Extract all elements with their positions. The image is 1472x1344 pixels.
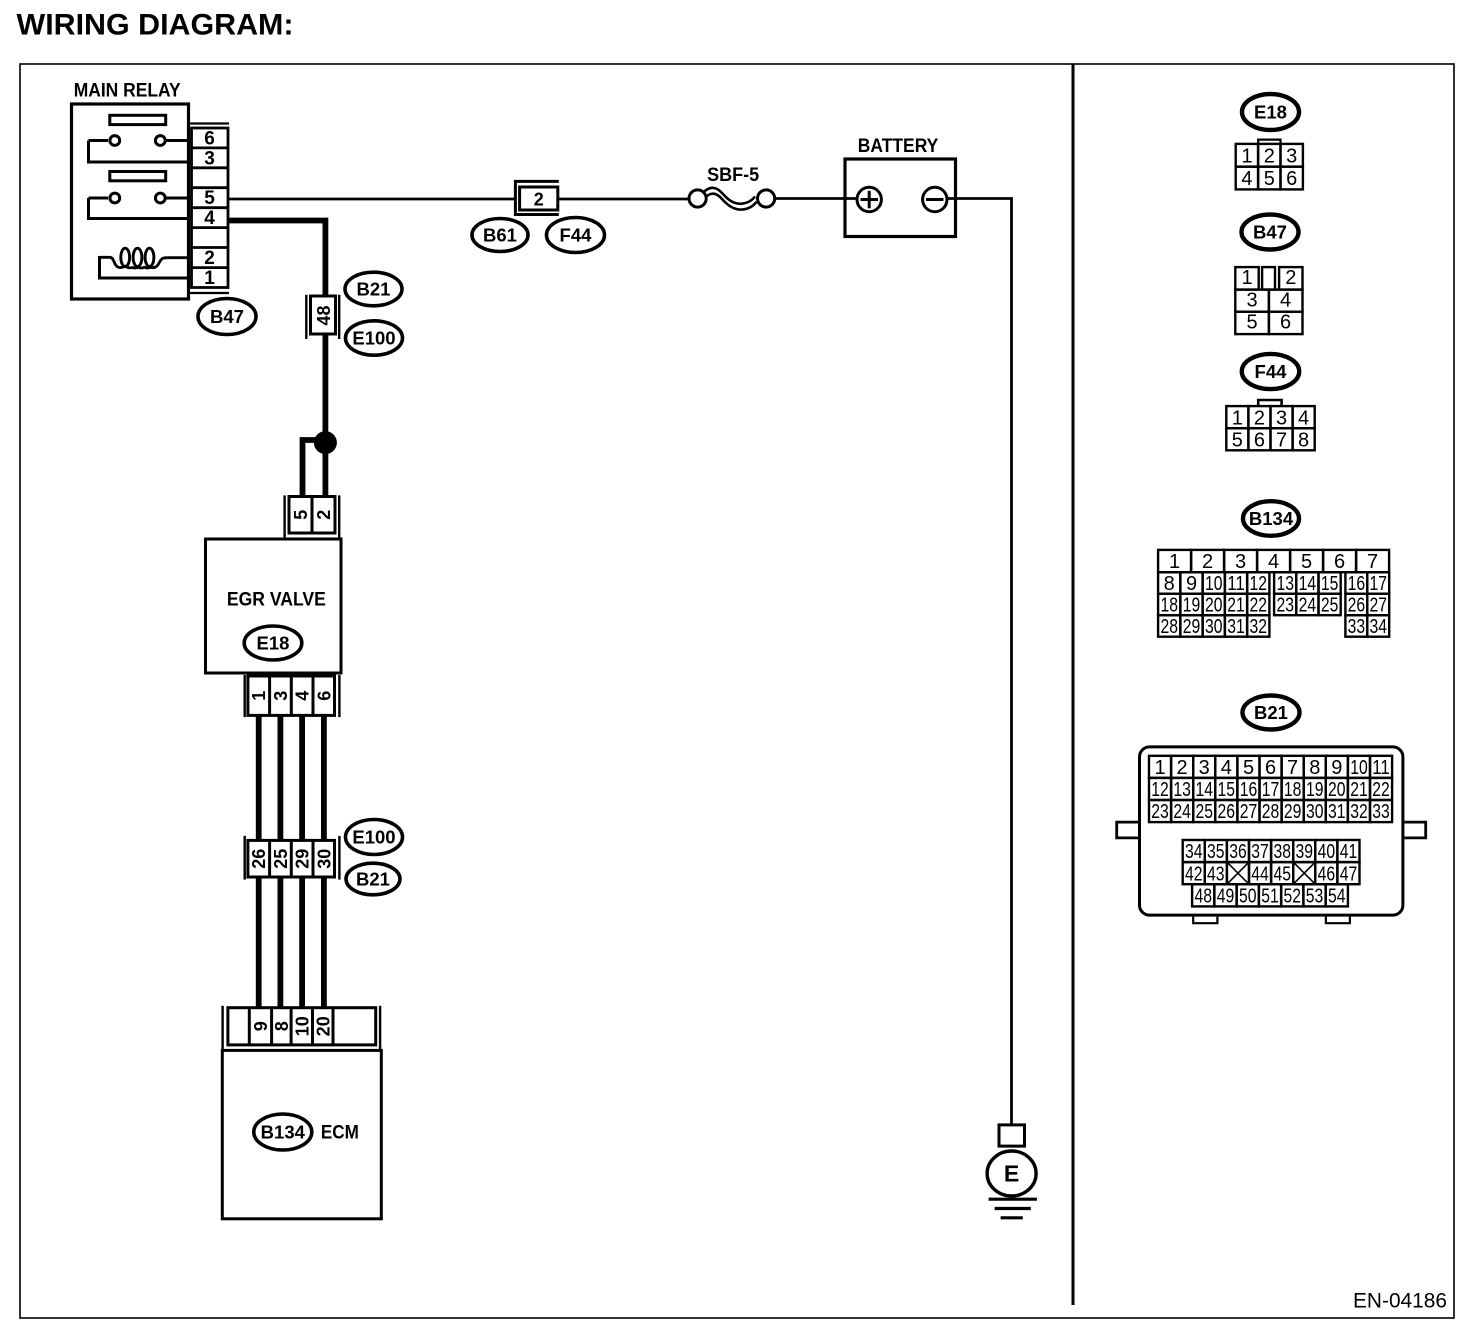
fuse SBF-5	[689, 165, 775, 210]
svg-text:42: 42	[1185, 863, 1203, 885]
svg-text:7: 7	[1287, 757, 1298, 779]
svg-text:3: 3	[1286, 146, 1297, 168]
svg-text:3: 3	[271, 691, 291, 701]
svg-text:2: 2	[534, 190, 544, 210]
svg-text:40: 40	[1318, 841, 1336, 863]
wire: B21 pin 25 to ECM pin 8	[277, 877, 283, 1009]
svg-text:E18: E18	[257, 632, 290, 653]
connector label B21	[345, 272, 402, 306]
svg-text:13: 13	[1276, 573, 1294, 595]
svg-text:31: 31	[1328, 801, 1346, 823]
svg-text:5: 5	[1232, 430, 1243, 452]
svg-text:20: 20	[1328, 779, 1346, 801]
svg-text:10: 10	[1205, 573, 1223, 595]
svg-text:BATTERY: BATTERY	[858, 136, 939, 157]
svg-text:21: 21	[1227, 595, 1245, 617]
wire: junction to EGR pin 2	[322, 443, 328, 497]
svg-text:F44: F44	[560, 224, 593, 245]
svg-text:17: 17	[1370, 573, 1388, 595]
svg-text:6: 6	[1280, 312, 1291, 334]
svg-text:9: 9	[251, 1021, 271, 1031]
svg-text:27: 27	[1370, 595, 1388, 617]
svg-text:3: 3	[1235, 551, 1246, 573]
svg-text:B21: B21	[357, 278, 391, 299]
svg-text:1: 1	[1241, 146, 1252, 168]
svg-text:11: 11	[1227, 573, 1245, 595]
svg-text:27: 27	[1240, 801, 1258, 823]
svg-text:33: 33	[1372, 801, 1390, 823]
connector B21 housing	[1117, 747, 1426, 923]
svg-text:4: 4	[1298, 407, 1309, 429]
connector label E100	[346, 321, 403, 355]
svg-text:4: 4	[1280, 289, 1291, 311]
svg-text:25: 25	[1195, 801, 1213, 823]
svg-text:26: 26	[1218, 801, 1236, 823]
svg-text:2: 2	[1264, 146, 1275, 168]
relay switch 1 (pins 6-3)	[89, 136, 189, 162]
svg-text:1: 1	[1232, 407, 1243, 429]
svg-text:9: 9	[1186, 573, 1197, 595]
svg-text:41: 41	[1340, 841, 1358, 863]
connector label F44	[547, 218, 605, 253]
svg-text:EGR VALVE: EGR VALVE	[227, 590, 326, 611]
svg-text:47: 47	[1340, 863, 1358, 885]
wire: E18 pin 3 to E100 pin 25	[277, 715, 283, 841]
svg-text:26: 26	[249, 849, 269, 869]
connector F44 pin layout label	[1242, 354, 1299, 389]
svg-text:6: 6	[1334, 551, 1345, 573]
svg-text:51: 51	[1261, 886, 1279, 908]
svg-text:4: 4	[1268, 551, 1279, 573]
svg-text:37: 37	[1251, 841, 1269, 863]
svg-text:54: 54	[1328, 886, 1346, 908]
svg-text:24: 24	[1173, 801, 1191, 823]
svg-text:E100: E100	[352, 826, 395, 847]
svg-text:6: 6	[1286, 168, 1297, 190]
svg-text:11: 11	[1372, 757, 1390, 779]
connector E18 bottom strip (pins 1,3,4,6)	[245, 675, 340, 717]
svg-text:B134: B134	[261, 1121, 306, 1142]
wire: B21 pin 30 to ECM pin 20	[321, 877, 327, 1009]
svg-text:5: 5	[291, 510, 311, 520]
svg-text:10: 10	[1350, 757, 1368, 779]
svg-text:20: 20	[313, 1016, 333, 1036]
connector B21 pin layout label	[1243, 696, 1300, 730]
connector E100/B21 strip (pins 26,25,29,30)	[245, 836, 340, 880]
svg-text:3: 3	[1246, 289, 1257, 311]
connector B47 pin strip	[189, 124, 230, 294]
svg-text:52: 52	[1284, 886, 1302, 908]
svg-text:B61: B61	[483, 224, 517, 245]
wire: connector 48 down to junction	[322, 334, 328, 443]
svg-text:22: 22	[1250, 595, 1268, 617]
connector B21 pin grid bottom	[1183, 840, 1360, 908]
svg-text:8: 8	[1309, 757, 1320, 779]
ground connector box	[999, 1125, 1025, 1146]
svg-text:23: 23	[1151, 801, 1169, 823]
svg-text:8: 8	[272, 1021, 292, 1031]
wire: fuse to battery +	[775, 197, 857, 200]
svg-text:17: 17	[1262, 779, 1280, 801]
connector B134 pin layout label	[1243, 501, 1299, 536]
svg-text:4: 4	[1221, 757, 1232, 779]
junction node	[314, 431, 337, 454]
svg-text:3: 3	[1276, 407, 1287, 429]
relay contact bar 1	[110, 115, 166, 124]
relay switch 2 (pins 5-4)	[89, 193, 189, 218]
connector label B47	[198, 299, 256, 335]
svg-text:7: 7	[1276, 430, 1287, 452]
connector B47 pin grid	[1235, 267, 1302, 334]
main relay box	[72, 81, 189, 299]
svg-text:3: 3	[204, 148, 215, 169]
svg-text:19: 19	[1183, 595, 1201, 617]
svg-text:F44: F44	[1255, 361, 1288, 382]
svg-text:B47: B47	[1253, 221, 1287, 242]
svg-text:25: 25	[1321, 595, 1339, 617]
svg-text:22: 22	[1372, 779, 1390, 801]
svg-text:43: 43	[1207, 863, 1225, 885]
battery + terminal	[857, 187, 881, 211]
blocked pin X cells	[1227, 862, 1315, 884]
svg-text:5: 5	[204, 188, 215, 209]
ECM box	[222, 1050, 381, 1218]
connector label B134	[254, 1114, 312, 1150]
svg-text:49: 49	[1217, 886, 1235, 908]
svg-text:15: 15	[1218, 779, 1236, 801]
battery - terminal	[923, 187, 947, 211]
svg-text:6: 6	[1254, 430, 1265, 452]
svg-text:29: 29	[1183, 616, 1201, 638]
svg-text:18: 18	[1284, 779, 1302, 801]
svg-text:1: 1	[1241, 267, 1252, 289]
svg-text:48: 48	[314, 305, 334, 325]
svg-text:16: 16	[1348, 573, 1366, 595]
svg-text:30: 30	[1205, 616, 1223, 638]
relay contact bar 2	[110, 172, 166, 181]
svg-text:5: 5	[1246, 312, 1257, 334]
svg-text:32: 32	[1250, 616, 1268, 638]
svg-text:21: 21	[1350, 779, 1368, 801]
connector label B21	[346, 863, 400, 895]
svg-text:26: 26	[1348, 595, 1366, 617]
svg-text:6: 6	[1265, 757, 1276, 779]
connector E18 top strip (pins 5,2)	[285, 495, 340, 538]
svg-text:18: 18	[1160, 595, 1178, 617]
svg-text:B47: B47	[210, 306, 244, 327]
svg-text:30: 30	[314, 849, 334, 869]
svg-text:48: 48	[1194, 886, 1212, 908]
connector B134 pin grid	[1158, 550, 1389, 638]
svg-text:33: 33	[1348, 616, 1366, 638]
svg-text:16: 16	[1240, 779, 1258, 801]
svg-text:14: 14	[1299, 573, 1317, 595]
connector label E18	[244, 626, 302, 660]
svg-text:46: 46	[1318, 863, 1336, 885]
svg-text:B134: B134	[1249, 508, 1294, 529]
svg-text:24: 24	[1299, 595, 1317, 617]
connector B47 pin layout label	[1242, 215, 1299, 250]
svg-text:35: 35	[1207, 841, 1225, 863]
svg-text:44: 44	[1251, 863, 1269, 885]
svg-text:7: 7	[1367, 551, 1378, 573]
connector E18 pin layout label	[1242, 94, 1299, 130]
svg-text:32: 32	[1350, 801, 1368, 823]
svg-text:12: 12	[1250, 573, 1268, 595]
svg-text:12: 12	[1151, 779, 1169, 801]
svg-text:23: 23	[1276, 595, 1294, 617]
svg-text:4: 4	[1241, 168, 1252, 190]
wire: junction branch to EGR pin 5	[303, 440, 326, 497]
svg-text:36: 36	[1229, 841, 1247, 863]
svg-text:9: 9	[1331, 757, 1342, 779]
wire: connector 2 to fuse SBF-5	[559, 198, 690, 201]
svg-text:53: 53	[1306, 886, 1324, 908]
wire: E18 pin 6 to E100 pin 30	[321, 715, 327, 841]
svg-text:B21: B21	[1254, 702, 1288, 723]
svg-text:8: 8	[1164, 573, 1175, 595]
svg-text:1: 1	[204, 268, 215, 289]
svg-text:SBF-5: SBF-5	[707, 165, 759, 186]
panel divider line	[1072, 64, 1075, 1305]
svg-text:WIRING DIAGRAM:: WIRING DIAGRAM:	[17, 9, 294, 42]
relay coil (pins 2-1)	[100, 248, 189, 278]
svg-text:25: 25	[271, 849, 291, 869]
battery	[845, 136, 956, 236]
svg-text:38: 38	[1273, 841, 1291, 863]
svg-text:MAIN RELAY: MAIN RELAY	[74, 81, 181, 102]
svg-text:E: E	[1004, 1161, 1019, 1187]
connector B21 pin grid top	[1149, 756, 1392, 823]
svg-text:3: 3	[1199, 757, 1210, 779]
wire: E18 pin 4 to E100 pin 29	[299, 715, 305, 841]
wire: B21 pin 29 to ECM pin 10	[299, 877, 305, 1009]
svg-text:2: 2	[1254, 407, 1265, 429]
wire: relay pin 4 down to connector 48 (thick)	[228, 221, 325, 297]
svg-text:E18: E18	[1254, 101, 1287, 122]
svg-text:E100: E100	[352, 327, 395, 348]
svg-text:5: 5	[1243, 757, 1254, 779]
wire: battery - to ground E	[947, 199, 1012, 1125]
svg-text:19: 19	[1306, 779, 1324, 801]
connector 48 (B21/E100 pass-through)	[306, 295, 339, 339]
svg-text:31: 31	[1227, 616, 1245, 638]
svg-text:14: 14	[1195, 779, 1213, 801]
svg-text:4: 4	[204, 208, 215, 229]
svg-text:6: 6	[314, 691, 334, 701]
svg-text:2: 2	[1285, 267, 1296, 289]
connector E18 pin grid	[1236, 140, 1303, 191]
connector F44 pin grid	[1226, 400, 1314, 452]
svg-text:39: 39	[1295, 841, 1313, 863]
svg-text:EN-04186: EN-04186	[1353, 1289, 1447, 1313]
wire: relay pin 5 to fuse connector	[228, 198, 514, 201]
svg-text:5: 5	[1301, 551, 1312, 573]
svg-text:15: 15	[1321, 573, 1339, 595]
svg-text:28: 28	[1262, 801, 1280, 823]
wire: B21 pin 26 to ECM pin 9	[256, 877, 262, 1009]
svg-text:20: 20	[1205, 595, 1223, 617]
wire: E18 pin 1 to E100 pin 26	[256, 715, 262, 841]
connector label E100	[346, 820, 403, 855]
svg-text:1: 1	[1154, 757, 1165, 779]
svg-text:1: 1	[1169, 551, 1180, 573]
connector label B61	[472, 219, 528, 252]
svg-text:2: 2	[1202, 551, 1213, 573]
svg-text:2: 2	[314, 510, 334, 520]
svg-text:6: 6	[204, 128, 215, 149]
svg-text:45: 45	[1273, 863, 1291, 885]
svg-text:29: 29	[1284, 801, 1302, 823]
svg-text:13: 13	[1173, 779, 1191, 801]
svg-text:50: 50	[1239, 886, 1257, 908]
in-line connector (B61/F44) pin 2	[515, 181, 558, 214]
svg-text:8: 8	[1298, 430, 1309, 452]
EGR valve box	[206, 539, 342, 673]
svg-text:10: 10	[292, 1016, 312, 1036]
svg-text:5: 5	[1264, 168, 1275, 190]
connector B134 strip (pins 9,8,10,20)	[223, 1006, 381, 1050]
svg-text:ECM: ECM	[321, 1123, 359, 1144]
svg-text:34: 34	[1370, 616, 1388, 638]
svg-text:1: 1	[249, 691, 269, 701]
ground E symbol	[987, 1151, 1037, 1218]
svg-text:30: 30	[1306, 801, 1324, 823]
svg-text:4: 4	[293, 691, 313, 701]
svg-text:29: 29	[293, 849, 313, 869]
svg-text:28: 28	[1160, 616, 1178, 638]
svg-text:B21: B21	[356, 868, 390, 889]
svg-text:34: 34	[1185, 841, 1203, 863]
svg-text:2: 2	[204, 248, 215, 269]
svg-text:2: 2	[1177, 757, 1188, 779]
